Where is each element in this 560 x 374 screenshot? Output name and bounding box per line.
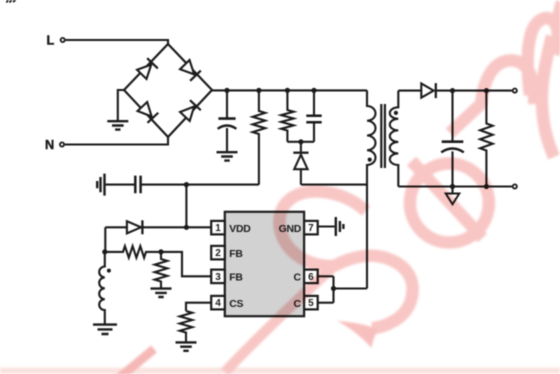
transformer T1 secondary: [390, 91, 399, 187]
ground (aux): [93, 325, 117, 334]
aux phase dot: [107, 269, 111, 273]
node aux/FB: [102, 249, 107, 254]
wire N to bridge bottom: [65, 137, 168, 145]
svg-text:2: 2: [215, 248, 221, 259]
IC U1 body: [225, 212, 304, 316]
node out+ C3: [450, 88, 455, 93]
bridge diode D4 (bottom-right edge): [179, 100, 200, 121]
node VDD tap on X line: [184, 182, 189, 187]
diode D6 (output): [421, 84, 433, 98]
primary phase dot: [368, 158, 372, 162]
wire pin4 CS: [186, 303, 211, 311]
resistor R2 (snubber): [281, 90, 294, 141]
watermark swirl upper loop: [279, 191, 366, 266]
wire clamp to drain rail: [301, 184, 367, 186]
terminal out+: [513, 89, 517, 93]
resistor R3 (FB upper, horizontal): [105, 246, 161, 258]
resistor R5 (load): [480, 91, 493, 187]
node drain link: [331, 286, 336, 291]
node bus-C1: [224, 88, 229, 93]
ground (CS): [176, 342, 197, 350]
wire pin6: [318, 275, 334, 277]
node bus-C2: [311, 88, 316, 93]
terminal L: [61, 38, 65, 42]
wire secondary bottom rail: [398, 185, 512, 187]
wire DC bus: [212, 89, 367, 91]
watermark swirl tail: [225, 266, 334, 372]
wire aux left leg: [104, 227, 106, 252]
svg-text:N: N: [45, 137, 54, 152]
wire X-cap to earth: [106, 184, 135, 186]
bridge diode D3 (left-bottom edge): [137, 101, 158, 122]
bridge rectifier diamond: [124, 44, 212, 137]
node bus-R1: [256, 88, 261, 93]
watermark bottom strip: [0, 368, 560, 374]
capacitor C2 (snubber): [313, 90, 315, 115]
bridge diode D2 (top-right edge): [179, 59, 200, 80]
capacitor C1 (bulk, polarized): [226, 90, 228, 118]
wire snubber bottom: [287, 141, 314, 143]
wire L to bridge top: [66, 40, 168, 44]
wire pin1: [186, 226, 211, 228]
diode D7 (clamp): [300, 142, 302, 152]
resistor R6 (CS sense): [180, 311, 193, 341]
bridge diode D1 (left-top edge): [136, 58, 157, 79]
wire FB node to pin3: [161, 252, 211, 276]
watermark m corner stroke: [556, 2, 560, 26]
watermark swirl lower loop: [334, 256, 413, 329]
wire secondary top: [398, 90, 421, 92]
transformer core: [381, 104, 385, 168]
svg-text:4: 4: [215, 298, 221, 309]
watermark m arch 1: [481, 60, 535, 105]
corner crop mark: [7, 0, 16, 3]
node FB divider: [158, 249, 163, 254]
svg-text:1: 1: [215, 223, 221, 234]
node snubber-diode: [298, 139, 303, 144]
wire VDD vertical: [185, 185, 187, 228]
terminal N: [60, 142, 64, 146]
svg-text:3: 3: [215, 272, 221, 283]
pin 4 pad: [211, 296, 225, 310]
node VDD pin1 junction: [184, 225, 189, 230]
svg-text:C: C: [293, 273, 301, 284]
capacitor C3 (output, polarized): [451, 91, 453, 142]
svg-text:L: L: [47, 33, 55, 48]
ground (C1): [217, 152, 238, 160]
secondary phase dot: [394, 111, 398, 115]
pin 3 pad: [211, 270, 225, 284]
svg-text:FB: FB: [229, 249, 243, 260]
resistor R4 (FB lower): [155, 252, 168, 288]
aux winding L1: [99, 252, 105, 324]
pin 7 pad: [304, 221, 318, 235]
watermark stroke 1: [119, 349, 154, 374]
svg-text:CS: CS: [229, 299, 243, 310]
watermark swirl wedge terminal: [337, 321, 378, 348]
svg-text:FB: FB: [229, 273, 243, 284]
pin 6 pad: [304, 270, 318, 284]
watermark m leg a: [450, 103, 482, 133]
wire pin5: [318, 302, 334, 304]
svg-text:5: 5: [308, 298, 314, 309]
diode D5 (VDD rectifier): [105, 226, 127, 228]
ground (pin7, rotated): [336, 217, 344, 236]
watermark m arch 2: [528, 18, 558, 95]
resistor R1 (bleeder): [253, 90, 266, 184]
wire R1 bottom to X-cap: [141, 184, 259, 186]
node bus-R2: [285, 88, 290, 93]
node out- C3: [450, 184, 455, 189]
ground (left, rotated): [97, 174, 104, 196]
svg-text:VDD: VDD: [229, 224, 251, 235]
capacitor CX (X-cap): [135, 176, 140, 194]
terminal out-: [513, 184, 517, 188]
transformer T1 primary: [367, 90, 376, 288]
watermark slash: [412, 161, 483, 238]
node out+ R5: [484, 88, 489, 93]
ground (bridge minus): [107, 121, 128, 129]
node out- R5: [484, 184, 489, 189]
wire drain link: [334, 276, 368, 302]
svg-text:7: 7: [308, 223, 314, 234]
ground (output, triangle): [451, 187, 453, 194]
watermark m final leg: [542, 36, 554, 157]
pin 1 pad: [211, 221, 225, 235]
watermark ring: [410, 164, 489, 243]
pin 2 pad: [211, 246, 225, 260]
pin 5 pad: [304, 296, 318, 310]
wire bridge left vertex to ground: [118, 90, 124, 121]
ground (R4): [151, 289, 172, 297]
wire pin7 to signal ground: [318, 225, 335, 227]
